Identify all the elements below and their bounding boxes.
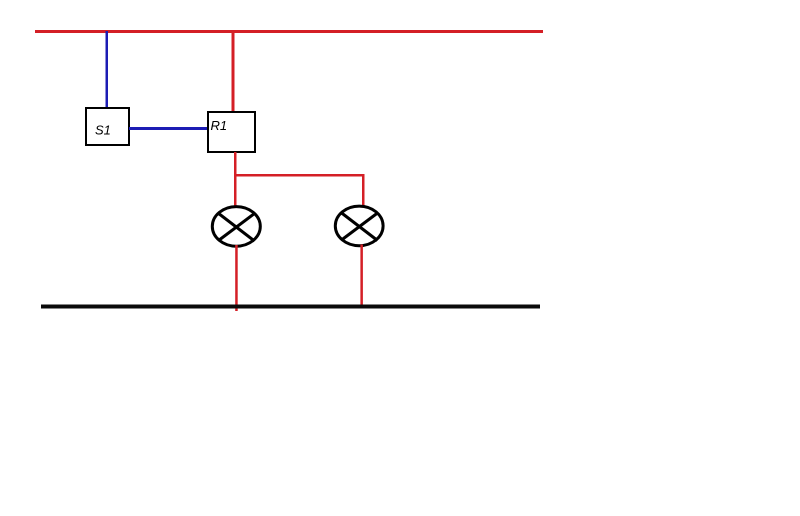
wire: red drop from branch to lamp E2 [362, 176, 365, 208]
wire: blue drop from top bus to switch S1 [106, 31, 109, 108]
lamp E2 [335, 206, 383, 246]
wire: red from lamp E1 to neutral bus [235, 245, 238, 311]
wire: red branch horizontal to lamp E2 [234, 174, 365, 177]
wire: red from R1 output down to branch node [234, 152, 237, 175]
wire: red drop from branch to lamp E1 [234, 176, 237, 208]
svg-text:S1: S1 [95, 123, 111, 138]
wire: blue control wire from S1 to relay R1 [129, 127, 208, 130]
lamp E1 [212, 207, 260, 247]
wire: red from lamp E2 to neutral bus [360, 245, 363, 308]
label S1 [95, 123, 111, 138]
label R1 [211, 118, 228, 133]
wire: red drop from top bus to relay R1 [232, 31, 235, 112]
wire: bottom neutral bus (black, N) [41, 305, 540, 309]
wire: top supply bus (red, L1) [35, 30, 543, 33]
svg-text:R1: R1 [211, 118, 228, 133]
relay R1 [208, 112, 255, 152]
switch S1 [86, 108, 129, 145]
